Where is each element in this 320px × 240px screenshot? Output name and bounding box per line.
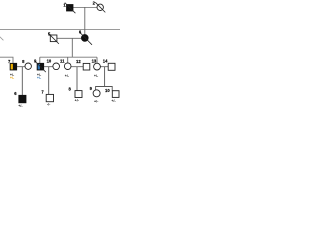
svg-text:13: 13 xyxy=(92,59,97,64)
svg-text:10: 10 xyxy=(105,88,110,93)
svg-text:14: 14 xyxy=(103,59,108,64)
svg-text:10: 10 xyxy=(47,58,52,63)
svg-text:12: 12 xyxy=(76,59,81,64)
svg-text:11: 11 xyxy=(60,58,65,63)
